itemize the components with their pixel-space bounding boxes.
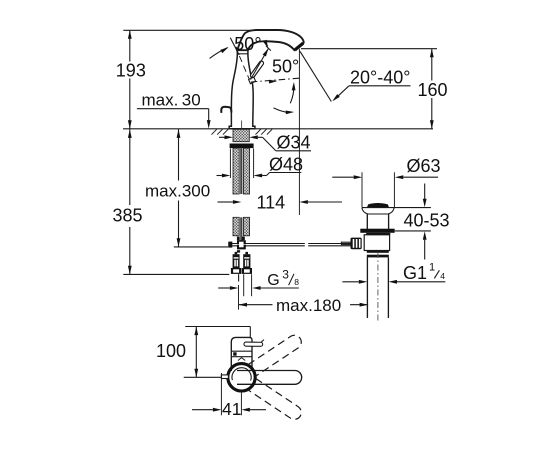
drain upper body [366, 214, 368, 229]
water stream line [300, 51, 331, 101]
shank below deck (hatched) [233, 129, 249, 141]
drain lower body [364, 235, 389, 251]
dimension max.300 [145, 129, 210, 247]
body collar line [237, 53, 248, 55]
connector nuts [231, 268, 252, 274]
drain flange (funnel) [362, 208, 394, 214]
svg-text:41: 41 [222, 399, 241, 419]
dimension 114 [218, 193, 343, 213]
threaded rods (lower segment, hatched) [233, 217, 239, 236]
svg-text:40-53: 40-53 [404, 211, 450, 231]
dimension &#216;48 [217, 149, 304, 179]
lever grip [253, 63, 262, 75]
svg-text:G: G [267, 272, 279, 289]
plan: swivel range (dashed, down) [248, 378, 304, 422]
plan: faucet body [231, 337, 252, 371]
svg-text:20°-40°: 20°-40° [350, 68, 410, 88]
svg-text:8: 8 [294, 277, 299, 287]
supply hose right / extension lines [243, 274, 245, 296]
label 20&#176;-40&#176; with leader [332, 68, 410, 102]
faucet body (front view) [229, 50, 255, 129]
dimension 100 [156, 327, 198, 378]
plan: spout (solid position) [237, 371, 302, 385]
plan: lever [246, 342, 261, 347]
spout outlet extension line (vertical) [298, 49, 300, 215]
dimension max.30 [137, 91, 211, 129]
dimension G 3/8 [218, 267, 299, 290]
rod adjuster tabs [237, 237, 240, 241]
plan: body ring lines [231, 350, 252, 352]
385 lower extension line [123, 273, 229, 275]
svg-text:Ø63: Ø63 [407, 156, 441, 176]
lever-down position (dash-dot) with arrowhead [251, 78, 299, 82]
rod clamp (tee at faucet) [237, 240, 246, 244]
drain plug cap (dark) [367, 203, 389, 208]
svg-text:50°: 50° [234, 34, 261, 54]
svg-text:160: 160 [418, 80, 448, 100]
spout (curved, front view) [237, 30, 303, 50]
drain: &#216;63 extension lines [361, 172, 363, 207]
svg-text:193: 193 [116, 61, 146, 81]
pop-up rod inside base [241, 121, 243, 129]
spout swivel arc + arrowhead [274, 108, 290, 112]
aerator (dark outlet band) [295, 43, 303, 50]
svg-text:G1: G1 [403, 263, 427, 283]
lever swing arc left + arrowhead [210, 48, 228, 59]
svg-text:385: 385 [113, 206, 143, 226]
top extension line (overall height reference) [123, 29, 258, 31]
dimension 41 [192, 373, 266, 419]
lever tip arrowhead + tick [263, 48, 269, 56]
max.300 lower extension line [174, 246, 228, 248]
svg-text:4: 4 [440, 271, 445, 281]
mounting nut (dark bar) [230, 144, 254, 149]
dimension 385 [113, 129, 143, 274]
svg-text:max.180: max.180 [276, 296, 341, 315]
dimension &#216;63 [332, 156, 440, 179]
svg-text:114: 114 [257, 193, 286, 213]
lever swing arc right + arrowhead [264, 42, 268, 46]
rod end cap [228, 242, 232, 248]
svg-text:Ø34: Ø34 [277, 133, 311, 153]
internal dashed line [239, 56, 250, 81]
lever axis line [251, 49, 269, 80]
dimension 40-53 [362, 184, 450, 260]
svg-text:max.300: max.300 [145, 182, 210, 201]
dimension G1 1/4 [342, 262, 445, 284]
svg-text:1: 1 [429, 262, 435, 274]
svg-text:100: 100 [156, 341, 186, 361]
plan: pop-up rod stub [221, 375, 228, 379]
deck / countertop line [123, 128, 433, 130]
plan: swivel range (dashed, up) [248, 333, 304, 377]
spout outlet height extension line (horizontal) [301, 48, 437, 50]
dimension &#216;34 [219, 133, 311, 153]
drain collar bands [367, 251, 389, 253]
pop-up vertical rod (upper) [240, 148, 242, 194]
pull rod + knurled knob [341, 241, 350, 243]
lever stroke arc (up arrow) [290, 85, 294, 104]
supply hose left [238, 274, 240, 281]
drain centerline [377, 252, 379, 321]
svg-text:3: 3 [282, 267, 289, 281]
top extension line (lever tip) [185, 326, 250, 328]
plan: mounting ring [228, 364, 255, 391]
dimension max.180 [239, 296, 369, 315]
supply connectors (check valves) [233, 252, 251, 268]
lever pivot block [249, 77, 256, 84]
svg-text:Ø48: Ø48 [269, 155, 303, 175]
threaded rods (upper segment, hatched) [233, 148, 239, 194]
tilted lever position line [230, 38, 239, 55]
tailpipe [366, 257, 368, 318]
spout axis extension line [184, 376, 222, 378]
drain seal ring (dark) [360, 229, 394, 233]
dimension 160 [418, 49, 448, 129]
deck hatching left [212, 129, 229, 134]
dimension 193 [116, 30, 146, 129]
svg-text:50°: 50° [272, 56, 299, 76]
plan: inner circle [232, 368, 251, 381]
pop-up horizontal rod to drain [228, 244, 351, 246]
deck hatching right [256, 129, 273, 134]
pop-up rod knob (left of body) [221, 107, 231, 113]
svg-text:max. 30: max. 30 [142, 91, 201, 110]
pop-up vertical rod (lower) [240, 217, 242, 241]
